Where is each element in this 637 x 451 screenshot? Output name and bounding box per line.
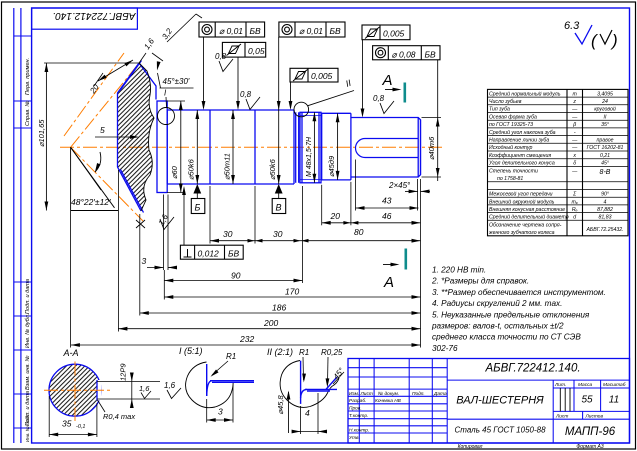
svg-text:Межосевой угол передачи: Межосевой угол передачи xyxy=(489,191,553,198)
svg-text:Справ. №: Справ. № xyxy=(25,101,31,126)
svg-text:30: 30 xyxy=(273,229,283,239)
svg-text:8-В: 8-В xyxy=(600,169,611,176)
svg-text:Средний угол наклона зуба: Средний угол наклона зуба xyxy=(489,129,556,136)
A-A dim 35 xyxy=(49,396,97,437)
detail I blue edges xyxy=(207,364,254,396)
svg-text:М 48х1,5-7Н: М 48х1,5-7Н xyxy=(306,136,313,177)
svg-text:55: 55 xyxy=(581,395,593,406)
svg-text:24: 24 xyxy=(601,99,608,105)
dim 232 xyxy=(71,344,421,346)
dim M48x1.5-7H xyxy=(313,112,315,183)
svg-text:правое: правое xyxy=(597,138,614,144)
svg-text:ВАЛ-ШЕСТЕРНЯ: ВАЛ-ШЕСТЕРНЯ xyxy=(456,395,544,407)
detail I dim 3 xyxy=(207,385,233,423)
svg-text:Внешний окружной модуль: Внешний окружной модуль xyxy=(489,198,555,205)
top inverted designation box xyxy=(32,8,138,29)
svg-text:Степень точности: Степень точности xyxy=(489,168,538,174)
svg-text:А-А: А-А xyxy=(63,348,79,358)
svg-text:0,8: 0,8 xyxy=(215,52,227,61)
A-A R0.4 max leader xyxy=(98,400,106,412)
main centerline xyxy=(60,146,444,148)
thread section M48 xyxy=(300,112,321,183)
svg-text:35°: 35° xyxy=(601,122,609,128)
svg-text:—: — xyxy=(571,114,578,120)
svg-text:Перв. примен.: Перв. примен. xyxy=(25,58,31,95)
svg-text:по 1758-81: по 1758-81 xyxy=(497,176,523,182)
svg-text:Лист: Лист xyxy=(555,413,568,419)
svg-text:МАПП-96: МАПП-96 xyxy=(565,426,616,438)
tolerance frame F5 profile 0.005 xyxy=(362,25,410,40)
svg-text:БВ: БВ xyxy=(228,248,240,258)
svg-text:Внешняя конусная расстояние: Внешняя конусная расстояние xyxy=(489,207,565,213)
svg-text:Пров.: Пров. xyxy=(349,405,362,411)
svg-text:0,05: 0,05 xyxy=(248,46,265,56)
svg-text:II (2:1): II (2:1) xyxy=(267,347,293,357)
svg-text:1. 220 НВ min.: 1. 220 НВ min. xyxy=(432,266,486,275)
diameter dim d60 xyxy=(167,101,185,193)
tolerance frame perpendicularity 0.012 BV xyxy=(180,245,243,259)
svg-text:Лит.: Лит. xyxy=(554,382,566,388)
gear tooth wavy edge xyxy=(139,63,154,211)
svg-text:Взам. инв. №: Взам. инв. № xyxy=(25,355,31,390)
tolerance frame F6 runout 0.08 BV xyxy=(373,46,440,60)
svg-text:Подп. и дата: Подп. и дата xyxy=(25,279,31,314)
detail II blob xyxy=(280,361,339,408)
svg-text:45°±30′: 45°±30′ xyxy=(163,77,190,86)
svg-text:186: 186 xyxy=(272,303,286,313)
svg-text:): ) xyxy=(610,31,618,50)
svg-text:3: 3 xyxy=(218,407,223,417)
svg-text:А: А xyxy=(382,72,393,89)
svg-text:Н.контр.: Н.контр. xyxy=(349,428,369,434)
svg-text:R0,25: R0,25 xyxy=(321,348,343,357)
tolerance frame F3 concentricity 0.01 BV xyxy=(279,22,345,37)
svg-text:12Р9: 12Р9 xyxy=(119,363,128,381)
section d50m11 xyxy=(210,110,255,184)
svg-text:—: — xyxy=(571,145,578,151)
left strip cell dividers xyxy=(14,36,32,428)
svg-text:232: 232 xyxy=(239,334,254,344)
thread groove xyxy=(295,112,297,183)
svg-text:Лист: Лист xyxy=(360,391,373,397)
dim 20 and 46 xyxy=(322,222,421,224)
svg-text:№ докум.: № докум. xyxy=(378,391,399,397)
detail II dim 4 xyxy=(301,393,318,434)
svg-text:Направление линии зуба: Направление линии зуба xyxy=(489,138,549,144)
gear pitch cone centerline upper xyxy=(71,62,140,147)
dim 200 xyxy=(118,328,420,330)
svg-text:Масса: Масса xyxy=(578,382,593,388)
gear back cone centerline upper-left xyxy=(64,53,124,136)
svg-text:20: 20 xyxy=(330,211,341,221)
svg-text:Дата: Дата xyxy=(433,391,447,397)
svg-text:45°: 45° xyxy=(601,161,609,167)
svg-text:30: 30 xyxy=(223,229,233,239)
tolerance frame F4 profile 0.005 xyxy=(290,68,338,82)
svg-text:⌀50k6: ⌀50k6 xyxy=(187,158,196,180)
svg-text:90: 90 xyxy=(231,271,241,281)
section d50k6 second xyxy=(255,110,294,184)
svg-text:2. *Размеры для справок.: 2. *Размеры для справок. xyxy=(431,277,529,286)
svg-text:Листов: Листов xyxy=(585,413,604,419)
svg-text:⌀ 0,01: ⌀ 0,01 xyxy=(299,26,323,36)
svg-text:—: — xyxy=(571,107,578,113)
extension lines bottom xyxy=(71,160,421,348)
A-A keyway flat xyxy=(97,380,102,401)
svg-text:4. Радиусы скруглений 2 мм. ma: 4. Радиусы скруглений 2 мм. max. xyxy=(432,299,562,308)
A-A crosshairs xyxy=(44,389,113,391)
svg-text:размеров: валов-t, остальных: размеров: валов-t, остальных ±t/2 xyxy=(431,322,564,331)
section d45d9 xyxy=(321,113,351,180)
svg-text:m: m xyxy=(573,91,578,97)
dim 170 xyxy=(164,296,420,298)
svg-text:Утв.: Утв. xyxy=(349,435,360,441)
section arrow A bottom xyxy=(383,264,396,266)
svg-text:Осевая форма зуба: Осевая форма зуба xyxy=(489,114,537,120)
svg-text:1,6: 1,6 xyxy=(139,384,150,393)
gear tooth band hatch upper xyxy=(118,63,155,211)
svg-text:0,012: 0,012 xyxy=(198,248,220,258)
svg-text:Б: Б xyxy=(195,203,201,213)
svg-text:87,882: 87,882 xyxy=(597,207,613,213)
detail II callout circle xyxy=(294,102,309,117)
shaft body outline xyxy=(157,101,421,193)
svg-text:Коэффициент смещения: Коэффициент смещения xyxy=(489,153,551,159)
svg-text:АБВГ.722412.140.: АБВГ.722412.140. xyxy=(53,10,137,21)
svg-text:Угол делительного конуса: Угол делительного конуса xyxy=(489,161,555,167)
svg-text:R1: R1 xyxy=(299,348,309,357)
left strip rotated labels xyxy=(25,58,31,442)
svg-text:δ: δ xyxy=(573,161,576,167)
svg-text:x: x xyxy=(572,153,576,159)
cross mark at gear bottom vertex xyxy=(136,220,145,228)
technical notes xyxy=(431,266,606,353)
svg-text:БВ: БВ xyxy=(330,26,342,36)
svg-text:Инв. № дубл.: Инв. № дубл. xyxy=(25,314,31,348)
svg-text:Формат А3: Формат А3 xyxy=(576,444,604,450)
svg-text:В: В xyxy=(276,203,282,213)
svg-text:Изм.: Изм. xyxy=(349,391,359,397)
A-A circle hatched xyxy=(49,364,101,416)
svg-text:Сталь 45 ГОСТ 1050-88: Сталь 45 ГОСТ 1050-88 xyxy=(454,426,546,435)
svg-text:-0,1: -0,1 xyxy=(76,424,85,430)
svg-text:А: А xyxy=(383,274,394,291)
svg-text:⌀45,8: ⌀45,8 xyxy=(276,395,285,415)
svg-text:β: β xyxy=(572,122,576,128)
collar d60 xyxy=(157,101,167,193)
svg-text:3,4095: 3,4095 xyxy=(597,91,613,97)
svg-text:43: 43 xyxy=(382,196,392,206)
svg-text:1,6: 1,6 xyxy=(164,381,176,390)
dim chain 30 30 80 xyxy=(210,240,421,242)
svg-text:⌀ 0,08: ⌀ 0,08 xyxy=(392,50,416,60)
svg-text:БВ: БВ xyxy=(425,50,437,60)
svg-text:Инв. № подл.: Инв. № подл. xyxy=(25,413,30,442)
svg-text:БВ: БВ xyxy=(250,26,262,36)
svg-text:0,8: 0,8 xyxy=(240,90,252,99)
svg-text:R1: R1 xyxy=(226,352,236,361)
svg-text:2×45°: 2×45° xyxy=(388,181,411,190)
svg-text:46: 46 xyxy=(382,211,392,221)
detail I callout circle on collar xyxy=(158,108,175,125)
svg-text:женного зубчатого колеса: женного зубчатого колеса xyxy=(488,230,555,236)
gear parameters table xyxy=(488,89,629,235)
tolerance frame F1 concentricity 0.01 BV xyxy=(199,22,265,37)
A-A keyway width dim 12P9 xyxy=(97,374,160,407)
svg-text:Масштаб: Масштаб xyxy=(603,382,626,388)
section d40m6 xyxy=(351,118,421,178)
svg-text:-: - xyxy=(574,130,576,136)
svg-text:Копировал: Копировал xyxy=(458,444,483,450)
gear band blue outline xyxy=(118,61,157,213)
gear lower outline black xyxy=(71,147,119,210)
svg-text:mₑ: mₑ xyxy=(572,199,578,205)
svg-text:48°22′±12′: 48°22′±12′ xyxy=(71,197,111,207)
svg-text:0,21: 0,21 xyxy=(600,153,610,159)
diameter dim d50k6 with datum B xyxy=(196,110,198,184)
svg-text:Разраб.: Разраб. xyxy=(349,398,366,404)
svg-text:Обозначение чертежа сопря-: Обозначение чертежа сопря- xyxy=(489,222,562,228)
gear pitch cone centerline lower xyxy=(71,147,143,221)
title block xyxy=(348,359,630,444)
tolerance frame F2 profile 0.05 xyxy=(222,42,265,57)
svg-text:0,005: 0,005 xyxy=(383,29,405,39)
svg-text:⌀50k6: ⌀50k6 xyxy=(268,158,277,180)
svg-text:—: — xyxy=(571,168,578,174)
diameter dim d50m11 xyxy=(232,110,234,184)
svg-text:Т.контр.: Т.контр. xyxy=(349,413,368,419)
datum V triangle and box xyxy=(275,184,283,194)
dim d40m6 right side xyxy=(422,60,442,181)
svg-text:⌀50m11: ⌀50m11 xyxy=(223,153,232,180)
dim d45d9 xyxy=(337,113,339,180)
dim 186 xyxy=(140,312,421,314)
svg-text:3: 3 xyxy=(142,256,147,266)
svg-text:35: 35 xyxy=(62,419,72,429)
svg-text:Rₑ: Rₑ xyxy=(572,207,578,213)
svg-text:200: 200 xyxy=(263,318,278,328)
svg-text:5: 5 xyxy=(100,125,105,135)
svg-text:круговой: круговой xyxy=(594,106,616,113)
diameter dim d50k6 second with datum V xyxy=(278,37,280,184)
svg-text:⌀ 0,01: ⌀ 0,01 xyxy=(219,26,243,36)
svg-text:⌀40m6: ⌀40m6 xyxy=(427,136,436,160)
svg-text:по ГОСТ 19325-73: по ГОСТ 19325-73 xyxy=(489,122,533,128)
dim 90 xyxy=(164,280,302,282)
section d50k6 first xyxy=(167,110,210,184)
datum B triangle and box xyxy=(193,184,201,194)
svg-text:3. **Размер обеспечивается инс: 3. **Размер обеспечивается инструментом. xyxy=(432,288,606,297)
detail II blue edges xyxy=(301,361,337,404)
svg-text:Исходный контур: Исходный контур xyxy=(489,144,532,151)
svg-text:Кочевка НВ: Кочевка НВ xyxy=(375,398,402,404)
keyway slot xyxy=(356,139,419,158)
svg-text:—: — xyxy=(571,138,578,144)
svg-text:АБВГ.722412.140.: АБВГ.722412.140. xyxy=(484,363,580,375)
svg-text:⌀60: ⌀60 xyxy=(170,165,179,179)
angle 48 arc xyxy=(95,152,101,172)
svg-text:11: 11 xyxy=(609,395,619,406)
dia 101.65 dimension xyxy=(44,63,140,211)
svg-text:90°: 90° xyxy=(601,192,609,198)
svg-text:⌀45д9: ⌀45д9 xyxy=(327,155,336,177)
svg-text:170: 170 xyxy=(285,287,299,297)
svg-text:R0,4 max: R0,4 max xyxy=(103,412,135,421)
svg-text:среднего класса точности по: среднего класса точности по СТ СЭВ xyxy=(432,333,581,342)
title block small texts xyxy=(349,382,626,441)
svg-text:I (5:1): I (5:1) xyxy=(179,346,203,356)
svg-text:4: 4 xyxy=(604,199,607,205)
dim 43 xyxy=(356,207,419,209)
svg-text:z: z xyxy=(572,99,576,105)
svg-text:Средний нормальный модуль: Средний нормальный модуль xyxy=(489,90,561,97)
svg-text:Подп.: Подп. xyxy=(412,391,425,397)
svg-text:ГОСТ 16202-81: ГОСТ 16202-81 xyxy=(587,145,624,151)
svg-text:6.3: 6.3 xyxy=(564,20,580,32)
svg-text:Средний делительный диаметр: Средний делительный диаметр xyxy=(489,214,569,221)
svg-text:0,8: 0,8 xyxy=(373,94,385,103)
detail I blob xyxy=(186,362,234,408)
svg-text:302-76: 302-76 xyxy=(432,344,458,353)
svg-text:0,005: 0,005 xyxy=(311,71,333,81)
svg-text:5. Неуказанные предельные от: 5. Неуказанные предельные отклонения xyxy=(432,310,590,319)
svg-text:4: 4 xyxy=(305,408,310,418)
svg-text:Число зубьев: Число зубьев xyxy=(489,99,522,105)
svg-text:⌀101,65: ⌀101,65 xyxy=(37,119,46,147)
svg-text:Тип зуба: Тип зуба xyxy=(489,107,510,113)
svg-text:81,83: 81,83 xyxy=(599,215,612,221)
svg-text:80: 80 xyxy=(354,227,364,237)
svg-text:АБВГ.72.25432.: АБВГ.72.25432. xyxy=(585,227,623,233)
left margin column lines xyxy=(13,8,15,443)
